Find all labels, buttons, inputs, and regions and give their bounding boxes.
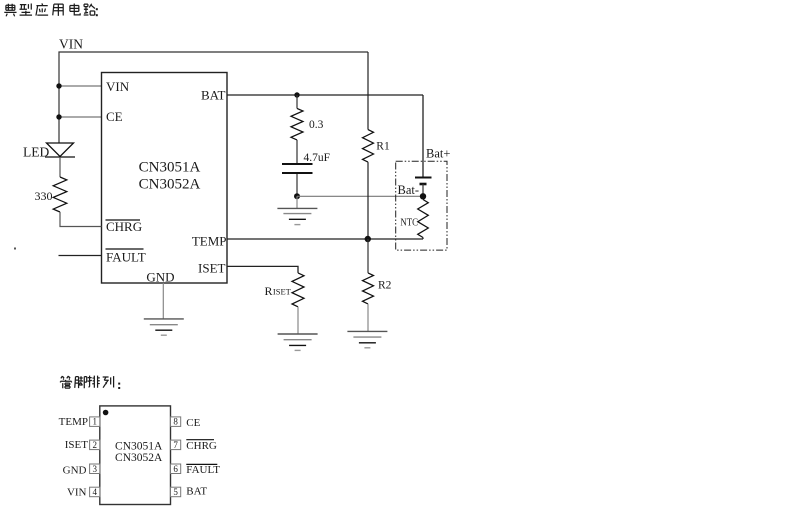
svg-text:CE: CE <box>106 109 123 124</box>
svg-text:TEMP: TEMP <box>192 233 227 248</box>
resistor 330 <box>35 177 67 212</box>
pin label FAULT with overline <box>186 464 220 476</box>
pin1 marker dot <box>103 410 109 416</box>
svg-text:0.3: 0.3 <box>309 119 324 131</box>
resistor 0.3 <box>291 108 324 139</box>
svg-text:CE: CE <box>186 417 200 429</box>
pin 1 box <box>90 417 100 427</box>
wire FAULT stub <box>59 255 102 257</box>
wire Bat- node <box>297 195 423 197</box>
pin 7 box <box>171 440 181 450</box>
wire battery positive <box>422 95 424 177</box>
svg-text:CN3052A: CN3052A <box>115 452 163 464</box>
svg-text:CHRG: CHRG <box>106 219 142 234</box>
svg-text:R1: R1 <box>376 140 390 152</box>
ground GND pin <box>144 319 184 335</box>
svg-text:FAULT: FAULT <box>186 464 220 476</box>
svg-text:Bat+: Bat+ <box>426 147 450 161</box>
svg-text:FAULT: FAULT <box>106 249 146 264</box>
stray period mark <box>14 248 16 250</box>
capacitor C1 4.7uF <box>282 152 330 173</box>
wire VIN top rail <box>59 52 368 143</box>
battery pack dashed box <box>396 161 447 250</box>
svg-text:GND: GND <box>146 270 174 285</box>
svg-text:LED: LED <box>23 145 49 160</box>
wire BAT dot to 0.3 resistor <box>296 95 298 108</box>
ground R2 <box>347 331 387 347</box>
svg-text:1: 1 <box>92 417 97 427</box>
junction dot TEMP/R1/R2 <box>365 236 371 242</box>
svg-text:4: 4 <box>92 487 97 497</box>
pin 4 box <box>90 487 100 497</box>
pin 8 box <box>171 417 181 427</box>
pin 5 box <box>171 487 181 497</box>
pin 2 box <box>90 440 100 450</box>
svg-text:CN3051A: CN3051A <box>115 440 163 452</box>
pin 6 box <box>171 464 181 474</box>
pinout package body <box>100 406 171 505</box>
title: 管脚排列: <box>60 376 120 389</box>
package part numbers <box>115 440 163 464</box>
wire CHRG <box>60 212 102 227</box>
junction dot CE <box>56 114 61 119</box>
svg-text:BAT: BAT <box>186 485 207 497</box>
svg-text:TEMP: TEMP <box>59 416 88 428</box>
pin label CHRG with overline <box>186 440 217 452</box>
svg-text:7: 7 <box>173 440 178 450</box>
title2 colon <box>118 383 120 389</box>
ground RISET <box>278 334 318 350</box>
node Bat- label <box>398 183 420 197</box>
svg-text:4.7uF: 4.7uF <box>304 152 331 164</box>
wire ISET <box>227 266 298 273</box>
wire ground stub <box>296 196 298 208</box>
wire VIN pin stub <box>59 85 102 87</box>
svg-text:6: 6 <box>173 464 178 474</box>
wire LED to resistor <box>59 157 61 177</box>
ground capacitor <box>277 208 317 224</box>
svg-text:ISET: ISET <box>65 439 89 451</box>
resistor R2 <box>363 239 392 331</box>
wire BAT <box>227 94 423 96</box>
battery cell symbol <box>415 178 432 197</box>
junction dot Bat- <box>420 193 426 199</box>
wire TEMP <box>227 238 423 240</box>
node VIN label <box>59 37 83 52</box>
resistor R1 <box>363 52 390 239</box>
svg-text:8: 8 <box>173 417 178 427</box>
svg-text:2: 2 <box>92 440 97 450</box>
svg-text:ISET: ISET <box>273 287 292 297</box>
svg-text:VIN: VIN <box>67 487 87 499</box>
pin label TEMP <box>59 416 88 428</box>
svg-text:3: 3 <box>92 464 97 474</box>
wire GND pin <box>162 283 164 319</box>
thermistor NTC <box>400 200 428 240</box>
pin label ISET <box>65 439 89 451</box>
wire 0.3 to capacitor <box>296 140 298 163</box>
svg-text:GND: GND <box>63 464 87 476</box>
svg-text:330: 330 <box>35 189 53 203</box>
junction dot VIN <box>56 83 61 88</box>
svg-text:ISET: ISET <box>198 261 226 276</box>
svg-text:CN3051A: CN3051A <box>139 160 201 176</box>
title: 典型应用电路: <box>4 3 98 16</box>
svg-text:BAT: BAT <box>201 88 226 103</box>
title1 colon <box>96 8 98 16</box>
svg-text:Bat-: Bat- <box>398 183 420 197</box>
svg-text:CHRG: CHRG <box>186 440 217 452</box>
pin 3 box <box>90 464 100 474</box>
wire capacitor to ground node <box>296 174 298 196</box>
pin label VIN <box>67 487 87 499</box>
svg-text:NTC: NTC <box>400 218 418 229</box>
svg-text:R: R <box>265 284 273 298</box>
svg-text:R2: R2 <box>378 280 392 292</box>
node Bat+ label <box>426 147 450 161</box>
svg-text:VIN: VIN <box>59 37 83 52</box>
svg-text:CN3052A: CN3052A <box>139 177 201 193</box>
svg-text:VIN: VIN <box>106 79 130 94</box>
wire CE pin stub <box>59 116 102 118</box>
junction dot cap ground <box>294 193 300 199</box>
pin label BAT <box>186 485 207 497</box>
pin label CE <box>186 417 200 429</box>
resistor RISET <box>265 273 305 334</box>
op-amp U1 CN3051A/CN3052A IC box <box>102 73 228 285</box>
svg-text:5: 5 <box>173 487 178 497</box>
pin label GND <box>63 464 87 476</box>
junction dot BAT/0.3 <box>294 92 299 97</box>
LED D1 <box>23 143 75 160</box>
